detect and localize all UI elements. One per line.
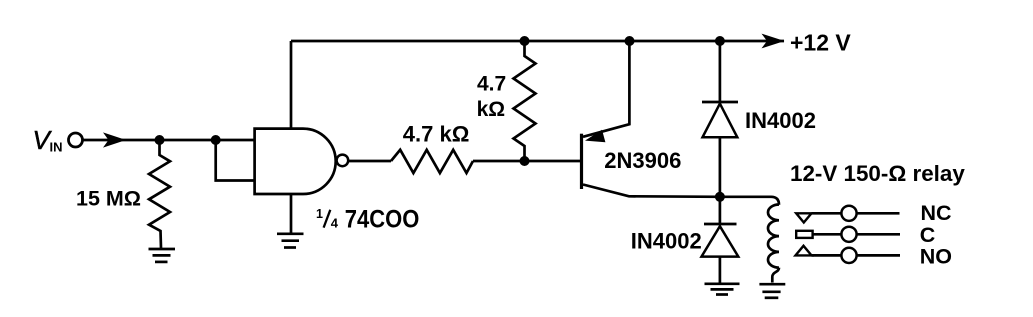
diode D1 IN4002 (top) triangle: [703, 104, 738, 138]
node B junction dot (gate input tie): [211, 135, 221, 145]
NO terminal circle: [841, 248, 856, 263]
ground (below NAND gate): [277, 234, 304, 248]
svg-text:+12 V: +12 V: [790, 29, 851, 55]
wire coil to ground: [772, 268, 779, 283]
NC terminal circle: [841, 206, 856, 221]
wire NC terminal lead: [857, 212, 900, 215]
svg-text:kΩ: kΩ: [477, 98, 506, 121]
svg-text:12-V 150-Ω relay: 12-V 150-Ω relay: [790, 161, 965, 186]
wire NC contact line: [812, 212, 842, 215]
input terminal circle: [69, 133, 83, 147]
svg-text:15 MΩ: 15 MΩ: [76, 186, 141, 210]
node A junction dot (15M tap): [155, 135, 165, 145]
wire bubble to base resistor: [348, 160, 391, 163]
wire top diode to collector node: [719, 137, 722, 197]
transistor emitter arrow (PNP): [585, 130, 605, 143]
ground (below 15M resistor): [149, 249, 176, 262]
relay coil L1: [768, 205, 779, 268]
relay contact NC fixed-contact triangle: [796, 213, 811, 222]
wire base resistor to transistor base: [473, 160, 580, 163]
label 1/4 74COO: [316, 206, 419, 234]
resistor 15 M-ohm: [149, 140, 170, 248]
svg-text:IN4002: IN4002: [631, 228, 702, 253]
NAND output bubble: [337, 155, 349, 167]
node rail junction dot (diode/relay branch): [715, 36, 725, 46]
svg-text:74COO: 74COO: [345, 206, 420, 234]
relay contact NO fixed-contact triangle: [796, 246, 812, 256]
arrow on input wire: [103, 132, 126, 147]
diode D1 IN4002 (top) cathode bar: [702, 101, 738, 104]
wire bottom diode to ground: [719, 257, 722, 283]
wire collector node to bottom diode: [719, 197, 722, 224]
wire collector node to relay coil: [720, 197, 779, 205]
resistor 4.7 k-ohm base (horizontal): [391, 150, 473, 173]
node rail junction dot (emitter): [625, 36, 635, 46]
ground (below relay coil): [759, 284, 785, 298]
wire rail to top diode: [719, 41, 722, 102]
node collector junction dot: [715, 192, 725, 202]
node base junction dot: [520, 156, 530, 166]
wire gate ground stem: [290, 194, 293, 233]
wire input to gate: [83, 139, 255, 142]
label VIN: [33, 125, 63, 155]
+12V rail arrow: [762, 34, 785, 49]
wire C terminal lead: [857, 233, 900, 236]
wire C contact line: [813, 233, 842, 236]
diode D2 IN4002 (bottom) cathode bar: [704, 223, 737, 226]
svg-text:IN4002: IN4002: [745, 108, 816, 133]
transistor emitter wire: [583, 41, 629, 137]
C terminal circle: [841, 227, 856, 242]
diode D2 IN4002 (bottom) triangle: [702, 226, 739, 256]
transistor Q1 2N3906 base bar: [580, 134, 583, 189]
svg-text:IN: IN: [50, 140, 63, 155]
ground (below bottom diode): [705, 284, 740, 295]
svg-text:1: 1: [316, 207, 323, 221]
wire NO terminal lead: [857, 254, 900, 257]
transistor collector wire: [583, 185, 720, 197]
svg-text:4.7 kΩ: 4.7 kΩ: [403, 122, 470, 147]
svg-text:4.7: 4.7: [477, 73, 506, 96]
resistor 4.7 k-ohm pull-up (vertical): [514, 41, 536, 161]
wire gate top to +12V rail: [290, 41, 293, 129]
svg-text:2N3906: 2N3906: [604, 148, 681, 173]
svg-text:NC: NC: [921, 201, 952, 225]
wire NO contact line: [812, 254, 842, 257]
+12V rail wire: [291, 40, 784, 43]
node rail junction dot (4.7k pullup): [520, 36, 530, 46]
wire gate input 2 tie: [216, 140, 255, 181]
relay contact C armature symbol: [796, 231, 812, 238]
NAND gate U1 1/4 74C00: [255, 129, 336, 194]
svg-text:NO: NO: [920, 244, 952, 268]
svg-text:4: 4: [331, 215, 339, 230]
